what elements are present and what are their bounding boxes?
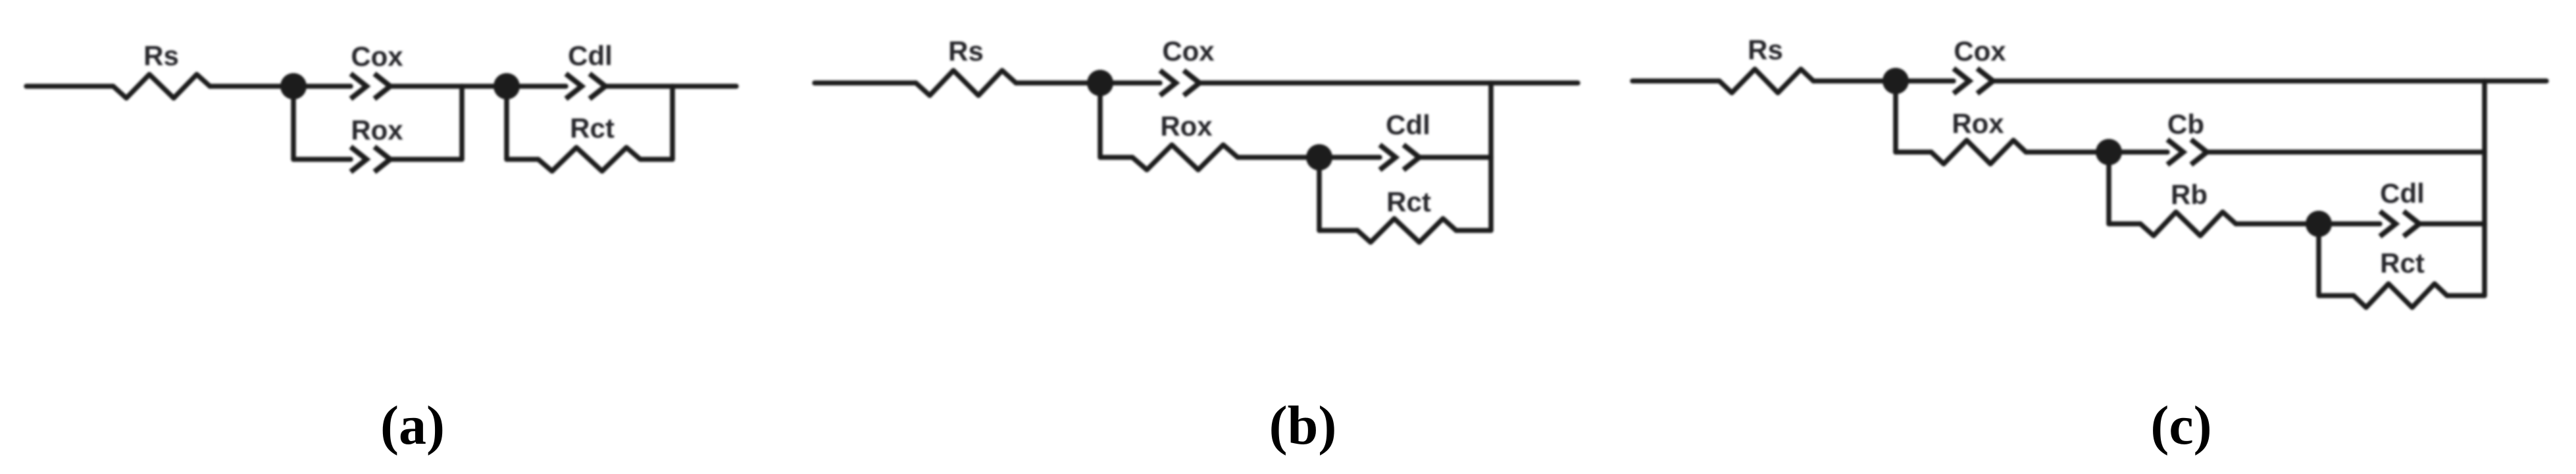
svg-text:Cdl: Cdl bbox=[568, 40, 613, 71]
resistor Rox (b) bbox=[1132, 145, 1238, 170]
svg-text:Rox: Rox bbox=[1952, 108, 2004, 139]
wire bbox=[293, 84, 351, 89]
svg-text:Cb: Cb bbox=[2167, 109, 2204, 140]
resistor Rct (a) bbox=[538, 147, 640, 171]
svg-text:Cox: Cox bbox=[1162, 36, 1215, 66]
svg-text:Cdl: Cdl bbox=[2380, 178, 2425, 209]
svg-text:Rs: Rs bbox=[948, 36, 984, 66]
wire bbox=[1896, 149, 1931, 155]
wire bbox=[1456, 228, 1491, 233]
wire bbox=[390, 157, 462, 162]
resistor Rox (c) bbox=[1931, 140, 2026, 164]
wire bbox=[1632, 78, 1719, 84]
svg-text:Cox: Cox bbox=[351, 41, 403, 72]
wire bbox=[1100, 155, 1132, 160]
capacitor Cdl (c) bbox=[2380, 211, 2419, 236]
resistor Rs (b) bbox=[916, 70, 1016, 95]
wire bbox=[2109, 149, 2167, 155]
resistor Rct (c) bbox=[2354, 284, 2447, 307]
wire bbox=[507, 157, 538, 162]
svg-text:(c): (c) bbox=[2150, 395, 2211, 456]
resistor Rb (c) bbox=[2140, 212, 2236, 236]
wire bbox=[390, 84, 462, 89]
node (a) n2 bbox=[493, 73, 520, 99]
svg-text:Rct: Rct bbox=[570, 113, 615, 144]
wire bbox=[1319, 228, 1357, 233]
resistor Rct (b) bbox=[1357, 219, 1456, 242]
wire bbox=[1016, 80, 1100, 86]
wire bbox=[210, 84, 293, 89]
wire bbox=[293, 157, 351, 162]
wire bbox=[1098, 83, 1103, 157]
svg-text:Rct: Rct bbox=[1386, 186, 1431, 217]
wire bbox=[1488, 83, 1494, 230]
svg-text:Cdl: Cdl bbox=[1386, 109, 1430, 140]
svg-text:(a): (a) bbox=[380, 395, 445, 456]
node (c) n3 bbox=[2306, 211, 2332, 237]
node (b) n2 bbox=[1306, 144, 1332, 171]
wire bbox=[459, 86, 465, 159]
svg-text:Rb: Rb bbox=[2171, 179, 2208, 210]
wire bbox=[462, 84, 507, 89]
wire bbox=[672, 84, 736, 89]
svg-text:Rct: Rct bbox=[2380, 248, 2425, 278]
wire bbox=[1419, 155, 1491, 160]
wire bbox=[291, 86, 296, 159]
wire bbox=[670, 86, 675, 159]
wire bbox=[2419, 221, 2485, 226]
node (c) n1 bbox=[1882, 68, 1909, 94]
wire bbox=[507, 84, 566, 89]
wire bbox=[2106, 152, 2111, 224]
wire bbox=[2109, 221, 2140, 226]
wire bbox=[1813, 78, 1896, 84]
wire bbox=[1896, 78, 1954, 84]
capacitor Cb (c) bbox=[2167, 140, 2207, 165]
wire bbox=[1100, 80, 1160, 86]
capacitor Cdl (a) bbox=[566, 74, 605, 99]
wire bbox=[1238, 155, 1319, 160]
wire bbox=[2482, 81, 2487, 296]
svg-text:Rox: Rox bbox=[1160, 111, 1213, 142]
svg-text:Rs: Rs bbox=[143, 40, 179, 71]
wire bbox=[1319, 155, 1380, 160]
wire bbox=[1200, 80, 1578, 86]
wire bbox=[2319, 221, 2380, 226]
svg-text:Cox: Cox bbox=[1954, 36, 2006, 66]
wire bbox=[2447, 293, 2485, 298]
wire bbox=[604, 84, 672, 89]
node (b) n1 bbox=[1087, 70, 1113, 96]
capacitor Cdl (b) bbox=[1380, 145, 1419, 170]
capacitor Cox (b) bbox=[1160, 70, 1200, 95]
resistor Rox (a) bbox=[351, 147, 390, 172]
capacitor Cox (a) bbox=[351, 74, 390, 99]
wire bbox=[2207, 149, 2485, 155]
wire bbox=[1317, 157, 1322, 230]
wire bbox=[26, 84, 113, 89]
wire bbox=[1893, 81, 1898, 152]
wire bbox=[1993, 78, 2546, 84]
wire bbox=[2026, 149, 2109, 155]
wire bbox=[815, 80, 916, 86]
wire bbox=[640, 157, 672, 162]
svg-text:(b): (b) bbox=[1269, 395, 1337, 456]
svg-text:Rox: Rox bbox=[351, 115, 403, 145]
svg-text:Rs: Rs bbox=[1748, 34, 1783, 65]
wire bbox=[2319, 293, 2354, 298]
wire bbox=[504, 86, 509, 159]
resistor Rs (a) bbox=[113, 74, 210, 98]
wire bbox=[2316, 224, 2321, 296]
capacitor Cox (c) bbox=[1954, 68, 1993, 93]
wire bbox=[2236, 221, 2319, 226]
resistor Rs (c) bbox=[1719, 69, 1813, 93]
node (a) n1 bbox=[280, 73, 307, 99]
node (c) n2 bbox=[2096, 139, 2122, 165]
